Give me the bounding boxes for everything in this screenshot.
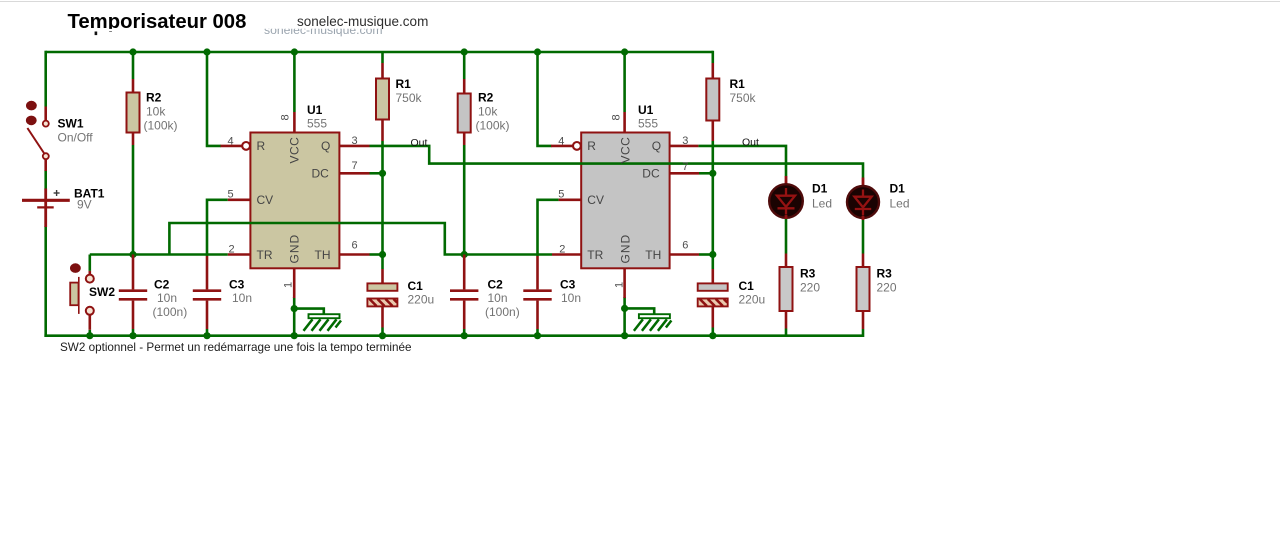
wire ground bottom rail [44, 334, 863, 337]
wire R2 to TR node (first) [132, 145, 135, 255]
svg-text:C3: C3 [560, 278, 576, 292]
svg-text:6: 6 [352, 239, 358, 251]
svg-text:DC: DC [642, 167, 660, 181]
wire battery minus to ground rail [44, 226, 47, 337]
wire C1 bottom to rail (first) [381, 328, 384, 336]
svg-text:C2: C2 [154, 278, 170, 292]
wire rail to R2 (second) [463, 52, 466, 79]
pin 2 TR stub [228, 253, 251, 256]
svg-text:VCC: VCC [618, 137, 632, 164]
wire C3 bottom to rail (first) [206, 329, 209, 336]
svg-text:VCC: VCC [288, 137, 302, 164]
junction TR1-C2a node [129, 251, 136, 258]
wire rail to pin4 R (second) [538, 52, 552, 146]
svg-text:TH: TH [645, 248, 661, 262]
pin 3 Q stub [339, 145, 369, 148]
svg-text:220u: 220u [739, 293, 766, 307]
junction rail-SW2 [86, 332, 93, 339]
svg-text:U1: U1 [638, 103, 654, 117]
resistor R3 second (220) [857, 254, 870, 330]
white band cutting title descender [58, 29, 258, 32]
wire GND pin1 to ground (second) [623, 297, 626, 336]
junction GND2 pin node [621, 305, 628, 312]
wire R2 to TR node (second) [463, 145, 466, 255]
pin numbers second timer [558, 114, 688, 288]
pin 1 GND stub [623, 268, 626, 298]
pin 2 TR stub [552, 253, 581, 256]
resistor R2 second (10k) [458, 79, 471, 145]
wire D1b cathode to R3b [862, 219, 865, 253]
wire CV pin5 to C3 (second) [538, 200, 559, 256]
svg-text:C2: C2 [488, 278, 504, 292]
svg-text:555: 555 [307, 117, 327, 131]
U1 first pins [221, 112, 370, 298]
svg-text:R1: R1 [730, 77, 746, 91]
svg-text:3: 3 [352, 135, 358, 147]
svg-text:C1: C1 [739, 279, 755, 293]
svg-text:4: 4 [558, 135, 564, 147]
wire TR net first timer [90, 253, 228, 256]
svg-text:U1: U1 [307, 103, 323, 117]
pin 3 Q stub [670, 145, 699, 148]
timer U1 second 555 body [581, 133, 669, 269]
pin 7 DC stub [339, 172, 369, 175]
svg-text:220u: 220u [408, 293, 435, 307]
svg-text:5: 5 [228, 189, 234, 201]
pin names second timer [587, 137, 661, 264]
svg-text:5: 5 [558, 189, 564, 201]
wire DC pin7 to node (first) [370, 172, 383, 175]
svg-text:8: 8 [280, 114, 292, 120]
svg-text:On/Off: On/Off [58, 131, 94, 145]
junction rail-C1b [709, 332, 716, 339]
svg-text:sonelec-musique.com: sonelec-musique.com [297, 14, 428, 29]
svg-text:R1: R1 [396, 77, 412, 91]
pin 8 VCC stub [293, 112, 296, 133]
junction rail-GND1 [291, 332, 298, 339]
svg-text:CV: CV [257, 193, 274, 207]
ground symbol first [294, 309, 341, 331]
svg-text:(100n): (100n) [485, 305, 520, 319]
wire R1 bottom to DC/TH/C1 (first) [381, 141, 384, 269]
wire SW2 bottom to rail [89, 330, 92, 336]
svg-text:TR: TR [257, 248, 273, 262]
svg-text:CV: CV [587, 193, 604, 207]
pin 1 GND stub [293, 268, 296, 298]
op-amp/timer U1 first 555 body [250, 133, 339, 269]
svg-text:555: 555 [638, 117, 658, 131]
pin 4 R stub [221, 145, 243, 148]
wire C3 bottom to rail (second) [536, 329, 539, 336]
svg-text:R3: R3 [800, 267, 816, 281]
svg-text:(100k): (100k) [144, 119, 178, 133]
svg-text:10n: 10n [157, 291, 177, 305]
pin 7 DC stub [670, 172, 699, 175]
capacitor C3 first (10n) [193, 256, 221, 329]
svg-text:750k: 750k [396, 91, 423, 105]
labels first timer [58, 77, 435, 319]
svg-text:TR: TR [587, 248, 603, 262]
wire rail to R2 (first) [132, 52, 135, 79]
svg-text:R2: R2 [146, 91, 162, 105]
wire TR link between timers [169, 223, 552, 255]
junction rail-C2a [129, 332, 136, 339]
resistor R2 first (10k) [127, 79, 140, 145]
svg-text:C3: C3 [229, 278, 245, 292]
wire Out2 from Q2 to D1a [698, 146, 786, 176]
svg-text:10n: 10n [488, 291, 508, 305]
wire C1 bottom to rail (second) [711, 328, 714, 336]
svg-text:Q: Q [321, 139, 330, 153]
svg-text:R: R [587, 139, 596, 153]
wire GND pin1 to ground (first) [293, 297, 296, 336]
resistor R3 first (220) [780, 254, 793, 329]
svg-text:SW1: SW1 [58, 117, 84, 131]
wire TH pin6 to node (second) [699, 253, 713, 256]
svg-text:GND: GND [288, 234, 302, 264]
svg-text:R3: R3 [877, 267, 893, 281]
svg-text:10n: 10n [232, 291, 252, 305]
pin 5 CV stub [228, 199, 251, 202]
capacitor C2 second (10n/100n) [450, 255, 478, 330]
pin 6 TH stub [670, 253, 699, 256]
pin 6 TH stub [339, 253, 369, 256]
svg-text:8: 8 [610, 114, 622, 120]
junction DC1 node [379, 170, 386, 177]
wire DC pin7 to node (second) [699, 172, 713, 175]
pin 5 CV stub [559, 199, 582, 202]
svg-text:7: 7 [352, 160, 358, 172]
svg-text:7: 7 [682, 161, 688, 173]
junction TH2 node [709, 251, 716, 258]
svg-text:D1: D1 [890, 182, 906, 196]
junction rail-C3b [534, 332, 541, 339]
svg-text:(100k): (100k) [476, 119, 510, 133]
svg-text:2: 2 [229, 244, 235, 256]
svg-text:R: R [257, 139, 266, 153]
diode D1 first Led [769, 176, 803, 219]
wire VCC top rail [46, 51, 713, 54]
junction rail-R2b [461, 48, 468, 55]
wire rail to R1 (first) [381, 52, 384, 63]
svg-text:2: 2 [559, 244, 565, 256]
junction rail-pin4a [203, 48, 210, 55]
wire TH pin6 to node (first) [370, 253, 383, 256]
wire rail corner to R1 (second) [712, 52, 713, 63]
top border line [0, 1, 1280, 3]
svg-text:Q: Q [652, 139, 661, 153]
pin numbers first timer [228, 114, 358, 288]
svg-text:SW2 optionnel - Permet un redé: SW2 optionnel - Permet un redémarrage un… [60, 341, 411, 354]
switch SW2 pushbutton [70, 263, 94, 329]
svg-text:220: 220 [877, 281, 897, 295]
svg-text:9V: 9V [77, 198, 92, 212]
svg-text:GND: GND [618, 234, 632, 264]
svg-text:C1: C1 [408, 279, 424, 293]
svg-text:750k: 750k [730, 91, 757, 105]
capacitor C2 first (10n/100n) [119, 255, 147, 330]
junction TR2-R2b node [461, 251, 468, 258]
wire rail to VCC pin8 (second) [623, 52, 626, 112]
svg-text:(100n): (100n) [153, 305, 188, 319]
wire rail to pin4 R (first) [207, 52, 221, 146]
pin names first timer [257, 137, 331, 264]
wire top rail to SW1 [44, 51, 47, 107]
pin 4 inversion bubble second [573, 142, 581, 150]
svg-text:4: 4 [228, 135, 234, 147]
ground symbol second [625, 308, 672, 330]
svg-text:SW2: SW2 [89, 285, 115, 299]
wire Out1 from Q1 to D1b [370, 146, 864, 178]
svg-text:TH: TH [315, 248, 331, 262]
diode D1 second Led [847, 178, 879, 221]
wire rail to VCC pin8 (first) [293, 52, 296, 112]
svg-text:DC: DC [312, 167, 330, 181]
wire C2 bottom to rail (first) [132, 329, 135, 336]
junction rail-R2a [129, 48, 136, 55]
wire SW2 to TR net [89, 255, 92, 271]
battery BAT1 [22, 189, 70, 228]
junction TH1 node [379, 251, 386, 258]
svg-text:D1: D1 [812, 182, 828, 196]
wire CV pin5 to C3 (first) [207, 200, 228, 256]
svg-text:R2: R2 [478, 91, 494, 105]
pin 4 inversion bubble first [242, 142, 250, 150]
junction rail-VCC2 [621, 48, 628, 55]
svg-text:220: 220 [800, 281, 820, 295]
svg-text:1: 1 [613, 282, 625, 288]
wire C2 bottom to rail (second) [463, 329, 466, 336]
wire D1a cathode to R3a [785, 218, 788, 253]
svg-text:10k: 10k [478, 105, 498, 119]
junction DC2 node [709, 170, 716, 177]
capacitor C1 second electrolytic (220u) [698, 269, 728, 328]
junction GND1 pin node [291, 305, 298, 312]
wire R3b bottom to rail corner [862, 329, 865, 337]
svg-text:3: 3 [682, 135, 688, 147]
svg-text:10n: 10n [561, 291, 581, 305]
junction rail-C3a [203, 332, 210, 339]
svg-text:Out: Out [411, 137, 428, 149]
svg-text:6: 6 [682, 239, 688, 251]
resistor R1 second (750k) [706, 63, 719, 141]
svg-text:Out: Out [742, 137, 759, 149]
svg-text:Led: Led [890, 197, 910, 211]
capacitor C3 second (10n) [523, 256, 551, 329]
svg-text:Led: Led [812, 197, 832, 211]
resistor R1 first (750k) [376, 63, 389, 141]
svg-text:10k: 10k [146, 105, 166, 119]
U1 second pins [551, 112, 699, 298]
switch SW1 [26, 101, 49, 171]
wire R3a bottom to rail [785, 329, 788, 336]
junction rail-GND2 [621, 332, 628, 339]
pin 8 VCC stub [623, 112, 626, 133]
junction rail-C1a [379, 332, 386, 339]
wire SW1 to battery plus [44, 170, 47, 190]
labels second timer [476, 77, 910, 319]
pin 4 R stub [551, 145, 573, 148]
capacitor C1 first electrolytic (220u) [367, 269, 397, 328]
svg-text:1: 1 [283, 282, 295, 288]
wire R1 bottom to DC/TH/C1 (second) [711, 141, 714, 269]
junction rail-pin4b [534, 48, 541, 55]
junction rail-VCC1 [291, 48, 298, 55]
junction rail-C2b [461, 332, 468, 339]
